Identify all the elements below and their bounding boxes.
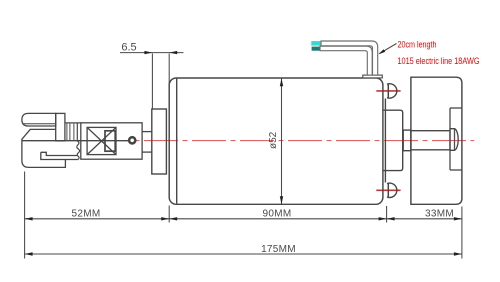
svg-text:175MM: 175MM — [261, 244, 296, 255]
svg-text:6.5: 6.5 — [121, 42, 136, 54]
svg-text:52MM: 52MM — [72, 209, 101, 220]
svg-text:20cm length: 20cm length — [398, 39, 437, 50]
svg-text:ø52: ø52 — [268, 131, 279, 149]
svg-text:33MM: 33MM — [425, 209, 454, 220]
svg-text:1015 electric line 18AWG: 1015 electric line 18AWG — [398, 56, 480, 67]
svg-text:90MM: 90MM — [263, 209, 292, 220]
